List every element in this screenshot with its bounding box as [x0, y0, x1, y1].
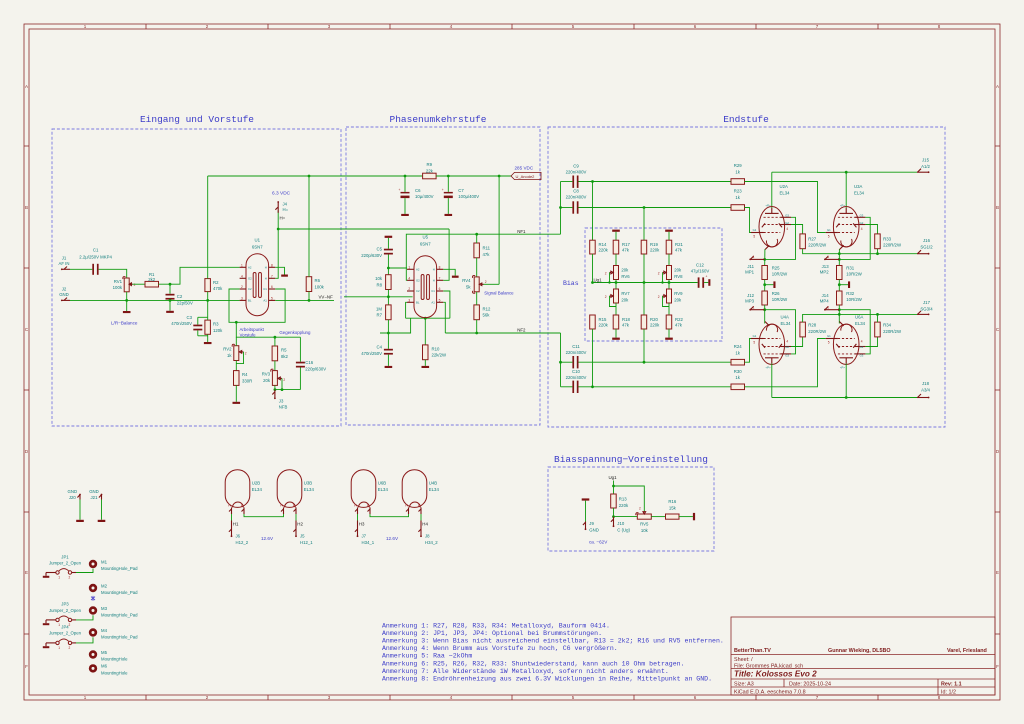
rail bar above R17: [612, 230, 620, 241]
wire R26 to U4A: [764, 305, 766, 324]
ground under C2: [166, 311, 174, 313]
wire R32 to U6A: [838, 305, 840, 324]
mounting pad M4: [89, 628, 138, 640]
svg-text:F: F: [996, 664, 999, 669]
svg-text:6: 6: [271, 285, 273, 289]
svg-text:47k: 47k: [483, 252, 491, 257]
wire Ug1 row: [593, 282, 698, 284]
capacitor C12: [691, 262, 710, 288]
svg-text:Gegenkopplung: Gegenkopplung: [279, 330, 311, 335]
svg-text:Size: A3: Size: A3: [734, 682, 754, 688]
resistor R6: [306, 277, 324, 292]
svg-text:EL34: EL34: [855, 321, 866, 326]
svg-text:A2: A2: [248, 265, 252, 269]
wire cathode loop around U1: [229, 289, 285, 322]
svg-text:Endstufe: Endstufe: [723, 114, 769, 125]
svg-text:A1: A1: [431, 300, 435, 304]
label Arbeitspunkt Vorstufe: [240, 327, 265, 337]
svg-text:47k: 47k: [675, 322, 683, 327]
wire RV8 bottom: [668, 280, 670, 290]
svg-text:Anmerkung 1: R27, R28, R33, R3: Anmerkung 1: R27, R28, R33, R34: Metallo…: [382, 622, 610, 629]
resistor R13: [611, 494, 629, 508]
svg-text:Anmerkung 6: R25, R26, R32, R3: Anmerkung 6: R25, R26, R32, R33: Shuntwi…: [382, 660, 685, 667]
junction rail R6: [308, 175, 311, 178]
svg-text:Anmerkung 8: Endröhrenheizung: Anmerkung 8: Endröhrenheizung aus zwei 6…: [382, 675, 712, 682]
wire JP3 to M3: [76, 615, 93, 620]
wire ground rail J2 to U1: [70, 299, 240, 301]
svg-text:EL34: EL34: [304, 487, 315, 492]
wire NF1 drop to C9/C8: [560, 182, 562, 235]
svg-text:47k: 47k: [622, 322, 630, 327]
svg-text:H=: H=: [283, 207, 289, 212]
pentode U6A EL34 (flipped): [826, 315, 866, 370]
svg-text:R18: R18: [622, 317, 630, 322]
svg-text:B: B: [996, 205, 999, 210]
wire R31 to R32: [838, 280, 840, 292]
pentode U2A EL34: [751, 172, 791, 249]
junction B+ drop: [498, 175, 501, 178]
capacitor C11: [561, 344, 587, 368]
svg-text:JP3: JP3: [61, 602, 69, 607]
connector J11 MP1: [745, 255, 765, 274]
svg-text:E: E: [996, 570, 999, 575]
svg-text:H12_2: H12_2: [236, 540, 249, 545]
svg-text:GND: GND: [589, 527, 599, 532]
junction U3A cathode: [838, 258, 841, 261]
capacitor C5: [361, 238, 393, 275]
junction MP bar node 2: [838, 283, 841, 286]
wire preset row: [614, 516, 638, 518]
wire C9 to R29: [579, 181, 732, 183]
svg-text:H34_2: H34_2: [425, 540, 438, 545]
wire RV9 to R22: [668, 303, 670, 315]
svg-text:U4B: U4B: [429, 480, 437, 485]
svg-text:<P>: <P>: [840, 204, 845, 208]
svg-text:J17: J17: [923, 300, 931, 305]
global label U_Anode2: [511, 172, 541, 179]
junction U3A anode: [845, 171, 848, 174]
svg-text:G3: G3: [860, 354, 864, 358]
svg-text:R13: R13: [619, 497, 627, 502]
wire heater pair 2: [370, 514, 409, 517]
svg-text:G2: G2: [860, 221, 864, 225]
svg-text:F: F: [25, 664, 28, 669]
wire U1 A1 to output: [275, 299, 334, 301]
wire R22 to gnd: [668, 329, 670, 338]
junction R20 at C11 row: [643, 361, 646, 364]
svg-text:2: 2: [69, 623, 71, 627]
svg-text:220n/400V: 220n/400V: [566, 195, 587, 200]
svg-text:2: 2: [605, 272, 607, 276]
svg-text:220n/400V: 220n/400V: [566, 169, 587, 174]
ground bar MP2: [839, 281, 850, 288]
wire R11 to RV4: [476, 258, 478, 277]
wire J1 to C1: [70, 268, 92, 270]
connector J9 GND: [583, 521, 599, 533]
junction C2 bottom: [169, 299, 172, 302]
svg-text:56k: 56k: [483, 313, 491, 318]
svg-text:R34: R34: [883, 323, 891, 328]
wire rail to R6: [308, 176, 310, 277]
connector J20 GND: [68, 489, 81, 500]
svg-text:1M: 1M: [376, 306, 382, 311]
ground bar JP4: [43, 643, 50, 648]
svg-text:R19: R19: [650, 242, 658, 247]
svg-text:C8: C8: [573, 189, 579, 194]
resistor R25: [762, 265, 788, 279]
ground bar JP1: [43, 573, 50, 578]
connector J18 A3/4: [917, 381, 931, 398]
capacitor C8: [561, 189, 587, 214]
junction VV-NF in: [387, 295, 390, 298]
potentiometer RV1: [113, 277, 136, 292]
wire U3A g3 to cathode row: [839, 217, 870, 259]
svg-text:3: 3: [408, 298, 410, 302]
capacitor C9: [561, 163, 587, 188]
junction U2A cathode: [763, 258, 766, 261]
junction NFB: [274, 388, 277, 391]
svg-text:12.6V: 12.6V: [386, 536, 399, 541]
svg-text:22p/50V: 22p/50V: [177, 300, 193, 305]
svg-text:5: 5: [828, 235, 830, 239]
resistor R22: [666, 315, 683, 329]
wire RV4 wiper to B+ drop: [484, 283, 500, 285]
junction skirt: [424, 317, 427, 320]
resistor R8: [375, 275, 391, 290]
svg-text:A1: A1: [263, 298, 267, 302]
svg-text:B: B: [25, 205, 28, 210]
svg-text:MountingHole_Pad: MountingHole_Pad: [101, 590, 138, 595]
svg-text:R31: R31: [846, 265, 854, 270]
svg-text:G3: G3: [785, 214, 789, 218]
svg-text:MP3: MP3: [745, 299, 754, 304]
svg-text:R6: R6: [315, 278, 321, 283]
svg-text:J5: J5: [300, 533, 305, 538]
svg-text:J10: J10: [617, 521, 625, 526]
svg-text:47k: 47k: [675, 247, 683, 252]
svg-text:Bias: Bias: [563, 280, 579, 287]
wire heater run to U5: [278, 228, 449, 230]
svg-text:G3: G3: [785, 354, 789, 358]
svg-text:2: 2: [658, 295, 660, 299]
svg-text:2: 2: [69, 576, 71, 580]
resistor R32: [837, 291, 863, 305]
connector J4 heater: [275, 201, 288, 220]
connector J1 AF IN: [59, 255, 70, 270]
svg-text:U6A: U6A: [855, 315, 863, 320]
svg-text:220k: 220k: [599, 322, 609, 327]
connector J6 H12_2: [229, 521, 249, 545]
svg-text:MP1: MP1: [745, 270, 754, 275]
resistor R9: [423, 162, 437, 179]
junction U6A anode: [845, 396, 848, 399]
junction C7: [447, 175, 450, 178]
svg-text:Jumper_2_Open: Jumper_2_Open: [49, 608, 82, 613]
resistor R16: [666, 499, 680, 519]
svg-text:J9: J9: [589, 521, 594, 526]
capacitor C1: [79, 248, 112, 275]
svg-text:C12: C12: [696, 262, 704, 267]
svg-text:R32: R32: [846, 291, 854, 296]
svg-text:R5: R5: [281, 348, 287, 353]
svg-text:R8: R8: [377, 283, 383, 288]
svg-text:H: H: [265, 276, 267, 280]
triode U5 6SN7: [407, 235, 443, 318]
wire H4 drop: [420, 514, 422, 521]
svg-text:R2: R2: [213, 280, 219, 285]
svg-text:RV4: RV4: [462, 278, 471, 283]
svg-text:G2: G2: [860, 345, 864, 349]
mounting pad M6: [89, 664, 128, 676]
svg-text:1: 1: [58, 623, 60, 627]
svg-text:5: 5: [828, 341, 830, 345]
capacitor C10: [561, 369, 587, 393]
wire U5 cathode skirt: [406, 317, 450, 319]
ground bar U1 heater: [281, 275, 288, 277]
wire U5 C1 to skirt: [443, 291, 450, 318]
svg-text:H34_1: H34_1: [362, 540, 375, 545]
svg-text:U5: U5: [423, 235, 429, 240]
svg-text:MountingHole_Pad: MountingHole_Pad: [101, 566, 138, 571]
junction MP bar node: [763, 283, 766, 286]
junction R2 bottom: [206, 299, 209, 302]
svg-text:H: H: [433, 267, 435, 271]
svg-text:10k: 10k: [641, 528, 649, 533]
svg-text:100k: 100k: [315, 285, 325, 290]
junction C6: [404, 175, 407, 178]
svg-text:MP4: MP4: [820, 299, 829, 304]
svg-text:R25: R25: [772, 265, 780, 270]
ground bar J20: [76, 520, 84, 522]
svg-text:G3: G3: [860, 214, 864, 218]
connector J5 H12_1: [293, 521, 313, 545]
resistor R3: [205, 317, 223, 342]
svg-text:G1: G1: [753, 228, 757, 232]
svg-text:U_Anode2: U_Anode2: [516, 174, 536, 179]
wire RV6 bottom: [615, 280, 617, 290]
connector J16 SG1/2: [917, 238, 933, 255]
svg-text:5: 5: [271, 296, 273, 300]
svg-text:J4: J4: [283, 201, 288, 206]
wire J4 drop: [277, 211, 279, 230]
svg-text:Anmerkung 7: Alle Widerstände: Anmerkung 7: Alle Widerstände 1W Metallo…: [382, 668, 669, 675]
wire NF2 net: [380, 318, 411, 333]
junction U6A cathode at rail: [838, 313, 841, 316]
svg-text:1: 1: [827, 306, 829, 310]
svg-text:8k2: 8k2: [281, 354, 289, 359]
svg-text:C2: C2: [177, 294, 183, 299]
junction J10 node: [612, 515, 615, 518]
svg-text:ca. −62V: ca. −62V: [589, 540, 608, 545]
svg-text:EL34: EL34: [854, 191, 865, 196]
svg-text:J16: J16: [923, 238, 931, 243]
power bar above C5: [385, 236, 393, 238]
svg-text:100k: 100k: [113, 285, 123, 290]
ground under C4: [385, 366, 393, 368]
svg-text:J13: J13: [822, 264, 830, 269]
svg-text:10µ/400V: 10µ/400V: [415, 194, 434, 199]
svg-text:Arbeitspunkt: Arbeitspunkt: [240, 327, 265, 332]
svg-text:NF1: NF1: [517, 229, 526, 234]
tube U2B EL34 heater: [225, 470, 262, 514]
svg-text:A1/2: A1/2: [921, 164, 930, 169]
svg-text:A3/4: A3/4: [921, 388, 930, 393]
svg-text:R20: R20: [650, 317, 658, 322]
svg-text:GND: GND: [89, 489, 99, 494]
svg-text:M4: M4: [101, 628, 108, 633]
ground under R18: [612, 338, 620, 340]
svg-text:2: 2: [658, 272, 660, 276]
wire screen rail upper: [803, 249, 917, 254]
svg-text:MP2: MP2: [820, 270, 829, 275]
wire R20 to C11 row: [643, 329, 645, 362]
svg-text:RV6: RV6: [621, 274, 630, 279]
svg-text:+: +: [442, 188, 444, 192]
svg-text:M1: M1: [101, 559, 108, 564]
capacitor C7 electrolytic: [442, 176, 480, 214]
svg-text:2.2µ/250V MKP4: 2.2µ/250V MKP4: [79, 254, 112, 259]
svg-text:M6: M6: [101, 664, 108, 669]
svg-text:R26: R26: [772, 291, 780, 296]
svg-text:G2: G2: [785, 345, 789, 349]
svg-text:H: H: [265, 265, 267, 269]
svg-text:C3: C3: [187, 315, 193, 320]
wire R14 col to Ug1 row: [592, 254, 594, 283]
ground bar J21: [98, 520, 106, 522]
svg-text:J18: J18: [922, 381, 930, 386]
junction R6 bottom: [308, 299, 311, 302]
connector J7 H34_1: [355, 521, 375, 545]
connector J17 SG3/4: [917, 300, 933, 315]
resistor R26: [762, 291, 788, 305]
wire R14 feed: [592, 182, 594, 241]
wire B+ drop to R2: [207, 176, 209, 279]
svg-text:J14: J14: [822, 293, 830, 298]
svg-text:NF2: NF2: [517, 328, 526, 333]
wire heater pair 1: [244, 514, 284, 517]
svg-text:C (Ug): C (Ug): [617, 527, 630, 532]
svg-text:22k: 22k: [426, 168, 434, 173]
svg-text:Rev: 1.1: Rev: 1.1: [941, 682, 962, 688]
ground under R22: [665, 338, 673, 340]
svg-text:285 VDC: 285 VDC: [515, 166, 534, 171]
svg-text:RV5: RV5: [640, 522, 649, 527]
svg-text:10k: 10k: [375, 276, 383, 281]
wire R13 to row: [613, 508, 615, 517]
wire U2A g2 to R27: [791, 225, 803, 234]
svg-text:220k: 220k: [650, 322, 660, 327]
wire R16 to end bar: [679, 516, 693, 518]
svg-text:C2: C2: [248, 287, 252, 291]
junction C4 top: [387, 332, 390, 335]
wire R33 bottom riser: [877, 249, 879, 254]
connector J2 GND: [59, 286, 70, 301]
svg-text:220n/400V: 220n/400V: [566, 375, 587, 380]
svg-text:R23: R23: [734, 189, 742, 194]
wire screen rail lower: [803, 314, 917, 322]
svg-text:RV7: RV7: [621, 291, 630, 296]
svg-text:U4A: U4A: [781, 315, 789, 320]
svg-text:2: 2: [639, 507, 641, 511]
mounting pad M3: [89, 606, 138, 618]
svg-text:12.6V: 12.6V: [261, 536, 274, 541]
svg-text:Jumper_2_Open: Jumper_2_Open: [49, 561, 82, 566]
mounting pad M2: [89, 583, 138, 595]
svg-text:2: 2: [605, 295, 607, 299]
wire U4A g3 riser: [765, 310, 796, 354]
svg-text:Anmerkung 3: Wenn Bias nicht a: Anmerkung 3: Wenn Bias nicht ausreichend…: [382, 638, 724, 645]
wire B+ drop for RV4: [498, 176, 500, 284]
svg-text:220k: 220k: [650, 247, 660, 252]
svg-text:M3: M3: [101, 606, 108, 611]
svg-text:H3: H3: [359, 521, 365, 526]
svg-text:SG3/4: SG3/4: [920, 307, 933, 312]
connector J13 MP2: [820, 255, 840, 274]
svg-text:20k: 20k: [621, 268, 629, 273]
svg-text:M5: M5: [101, 650, 108, 655]
svg-text:220k: 220k: [599, 247, 609, 252]
svg-text:VV−NF: VV−NF: [319, 295, 334, 300]
svg-text:J6: J6: [236, 533, 241, 538]
power bar C12 right: [708, 279, 710, 286]
wire bias tap vertical: [236, 322, 300, 337]
svg-text:J12: J12: [747, 293, 755, 298]
svg-text:4: 4: [786, 227, 788, 231]
svg-text:R28: R28: [808, 323, 816, 328]
junction R12 bottom: [475, 332, 478, 335]
svg-text:U3A: U3A: [854, 184, 862, 189]
potentiometer RV6: [605, 266, 630, 283]
junction J12 node: [763, 308, 766, 311]
svg-text:RV2: RV2: [223, 347, 232, 352]
svg-text:4: 4: [861, 227, 863, 231]
wire U1 H shield to bar: [275, 267, 284, 274]
resistor R19: [641, 240, 660, 254]
wire H2 drop: [295, 514, 297, 521]
wire U6A g2 to R34: [865, 337, 877, 347]
svg-text:Anmerkung 4: Wenn Brumm aus Vo: Anmerkung 4: Wenn Brumm aus Vorstufe zu …: [382, 645, 618, 652]
svg-text:G1: G1: [753, 334, 757, 338]
svg-text:6SN7: 6SN7: [252, 244, 263, 249]
svg-text:470n/250V: 470n/250V: [361, 351, 382, 356]
svg-text:AF IN: AF IN: [59, 261, 70, 266]
svg-text:4: 4: [241, 274, 243, 278]
connector J14 MP4: [820, 293, 840, 311]
power bar J9 top: [582, 498, 590, 500]
svg-text:220R/2W: 220R/2W: [883, 243, 902, 248]
svg-text:Ug1: Ug1: [609, 475, 618, 480]
svg-text:7: 7: [439, 276, 441, 280]
svg-text:C11: C11: [572, 344, 580, 349]
svg-text:20k: 20k: [674, 298, 682, 303]
svg-text:MountingHole_Pad: MountingHole_Pad: [101, 635, 138, 640]
svg-text:R4: R4: [242, 372, 248, 377]
ground under R3: [204, 342, 212, 344]
svg-text:1: 1: [241, 263, 243, 267]
svg-text:A: A: [996, 84, 999, 89]
resistor R30: [731, 369, 745, 390]
junction Ug1 cols: [591, 281, 594, 284]
svg-text:Ug1: Ug1: [594, 277, 603, 282]
svg-text:R29: R29: [734, 163, 742, 168]
ground under C6: [401, 214, 409, 216]
wire R8 to R7: [387, 290, 389, 305]
potentiometer RV2: [223, 337, 247, 370]
wire R7 bottom: [387, 320, 389, 349]
wire U5 heater feed: [443, 229, 449, 280]
svg-text:KiCad E.D.A. eeschema 7.0.8: KiCad E.D.A. eeschema 7.0.8: [734, 690, 806, 696]
svg-text:Anmerkung 2: JP1, JP3, JP4: Op: Anmerkung 2: JP1, JP3, JP4: Optional bei…: [382, 630, 602, 637]
